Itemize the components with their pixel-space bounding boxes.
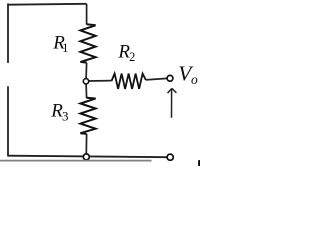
node: output terminal Vo (open circle)	[167, 75, 173, 81]
wire: vertical from top wire down to R1	[86, 4, 88, 25]
wire: left rail upper segment	[7, 4, 9, 62]
wire: bottom horizontal from left rail to output terminal	[8, 156, 167, 158]
wire: middle node to R3	[85, 84, 88, 99]
node: bottom-right terminal (open circle)	[167, 154, 173, 160]
node: bottom junction (open circle)	[83, 154, 89, 160]
svg-text:1: 1	[62, 41, 68, 55]
resistor R3 (vertical zigzag)	[80, 98, 95, 134]
resistor R2 (horizontal zigzag)	[112, 74, 146, 89]
wire: R3 bottom to bottom node	[85, 134, 87, 154]
wire: top horizontal from left rail to R1 branch	[8, 3, 87, 6]
resistor R1 (vertical zigzag)	[80, 24, 95, 62]
wire: middle node to R2	[89, 80, 112, 82]
wire: left rail lower segment	[7, 87, 9, 156]
arrow: output voltage reference (points up at terminal)	[168, 88, 177, 117]
selection border (grey line across bottom)	[0, 160, 152, 162]
node: middle junction (open circle)	[83, 79, 88, 84]
svg-text:3: 3	[62, 109, 69, 124]
wire: R1 bottom to middle node	[85, 63, 88, 79]
selection handle (black square bottom-right)	[198, 160, 200, 166]
svg-text:o: o	[191, 72, 198, 87]
wire: R2 to output terminal	[146, 78, 167, 80]
svg-text:2: 2	[129, 50, 135, 64]
